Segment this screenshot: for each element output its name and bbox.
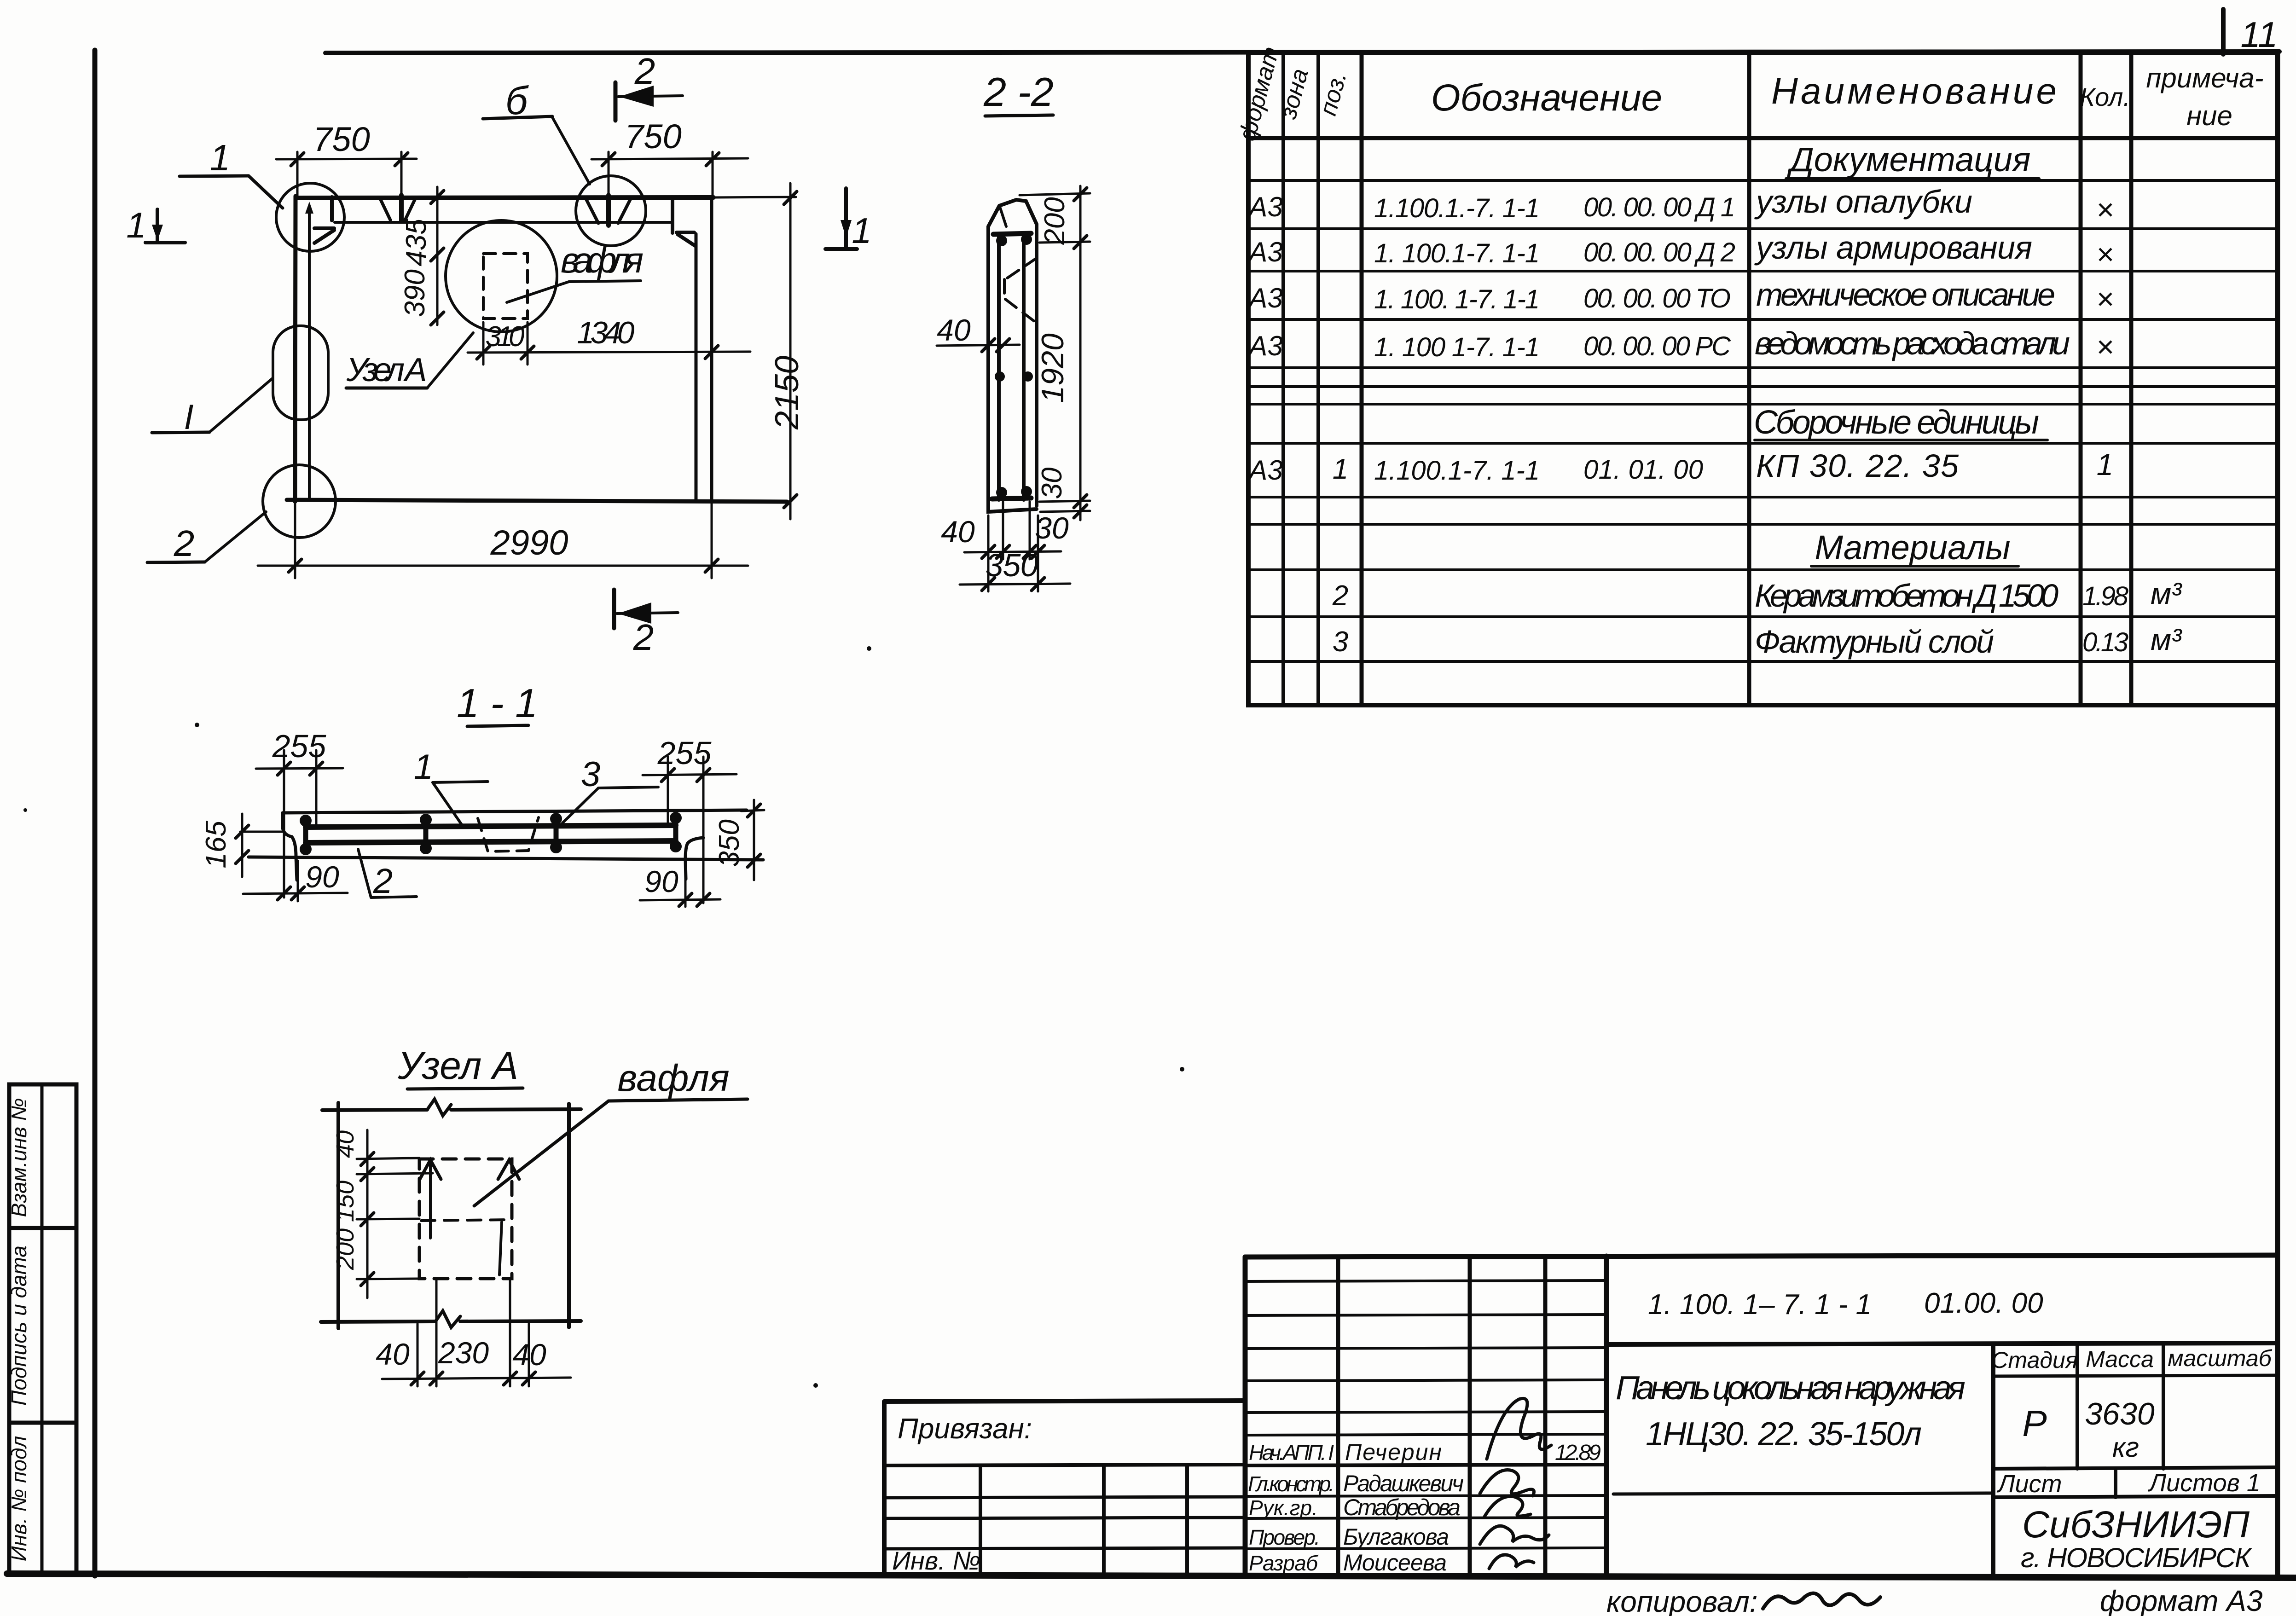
- table row 4 designation: [1374, 331, 1731, 362]
- table row 4 format A3: [1247, 330, 1282, 361]
- svg-text:м³: м³: [2151, 576, 2182, 610]
- svg-text:Керамзитобетон Д 1500: Керамзитобетон Д 1500: [1755, 578, 2058, 614]
- svg-text:Привязан:: Привязан:: [898, 1413, 1032, 1445]
- svg-text:×: ×: [2096, 192, 2114, 226]
- specification table outer frame: [1248, 53, 2278, 705]
- svg-text:40: 40: [331, 1130, 359, 1158]
- bottom annotation kopiroval: [1606, 1585, 1880, 1616]
- title block inv no label: [892, 1546, 980, 1575]
- svg-text:1 - 1: 1 - 1: [457, 680, 538, 726]
- scan speck dots: [23, 646, 1184, 1388]
- bottom annotation format A3: [2100, 1584, 2263, 1616]
- dimension chain 435 390 vertical: [399, 187, 444, 325]
- svg-text:Инв. №: Инв. №: [892, 1546, 980, 1575]
- table header label primechanie: [2146, 63, 2263, 131]
- title block stadiya value P: [2022, 1403, 2047, 1444]
- title block signature squiggle nach apm: [1487, 1398, 1551, 1459]
- title block document number cell: [1648, 1287, 2043, 1321]
- specification table column lines: [1283, 53, 2131, 705]
- uzel A waffle slope line right: [499, 1222, 502, 1275]
- plan view callout 1 label with leader: [180, 137, 283, 208]
- dimension 2150 vertical: [769, 183, 806, 519]
- svg-text:01. 01. 00: 01. 01. 00: [1583, 455, 1703, 485]
- svg-text:2150: 2150: [769, 356, 806, 430]
- title block panel name text: [1616, 1370, 1966, 1453]
- plan view left corner step: [330, 197, 334, 220]
- left stamp box outline: [9, 1084, 76, 1574]
- uzel A title underlined: [397, 1044, 523, 1089]
- svg-text:Инв. № подл: Инв. № подл: [7, 1436, 31, 1562]
- table row 2 qty x: [2096, 237, 2114, 271]
- svg-text:1: 1: [414, 747, 433, 787]
- section 2-2 panel outline: [988, 200, 1037, 512]
- svg-text:ние: ние: [2186, 100, 2232, 131]
- svg-text:Подпись и дата: Подпись и дата: [7, 1245, 31, 1406]
- svg-text:2990: 2990: [490, 523, 568, 562]
- svg-text:30: 30: [1036, 468, 1068, 499]
- plan view right formwork key trapezoid: [586, 195, 631, 226]
- plan view bottom corner circle node 2: [263, 465, 336, 538]
- svg-text:90: 90: [305, 860, 339, 894]
- plan view callout I label with leader: [152, 378, 273, 437]
- plan view waffle recess dashed box: [483, 254, 528, 319]
- plan view right corner step: [671, 198, 674, 233]
- table row KP designation: [1374, 455, 1703, 486]
- title block signature squiggle gl konstr: [1480, 1470, 1534, 1496]
- svg-text:12.89: 12.89: [1555, 1441, 1601, 1465]
- plan view panel top edge: [297, 197, 796, 198]
- svg-text:Р: Р: [2022, 1403, 2047, 1444]
- table row 1 format A3: [1247, 191, 1282, 222]
- section 1-1 dimension 90 right: [640, 864, 720, 907]
- svg-text:зона: зона: [1275, 66, 1314, 122]
- table row 1 designation: [1374, 192, 1735, 223]
- plan view callout circle b: [576, 176, 646, 246]
- table header label Naimenovanie: [1771, 70, 2057, 111]
- title block right sub table verticals: [1993, 1344, 2163, 1576]
- svg-text:Наименование: Наименование: [1771, 70, 2057, 111]
- plan view panel right inner line: [695, 234, 698, 499]
- section 1-1 left end hook profile: [283, 813, 297, 880]
- svg-text:Стадия: Стадия: [1991, 1347, 2077, 1373]
- table header label poz rotated: [1315, 69, 1352, 118]
- svg-text:310: 310: [486, 321, 525, 353]
- svg-text:кг: кг: [2112, 1432, 2139, 1463]
- svg-text:350: 350: [713, 819, 745, 867]
- left stamp label Inv no podl: [7, 1436, 31, 1562]
- section 1-1 dimension 165 left rotated: [200, 814, 283, 877]
- svg-text:Булгакова: Булгакова: [1343, 1524, 1449, 1550]
- svg-text:Кол.: Кол.: [2080, 82, 2130, 111]
- table header label format rotated: [1234, 44, 1284, 144]
- title block signature squiggle prover: [1480, 1526, 1549, 1544]
- section 1-1 callout 1 label with leader: [414, 747, 488, 825]
- plan view corner detail circle node 1: [276, 183, 344, 251]
- left stamp label Vzam inv no: [7, 1098, 31, 1217]
- svg-text:ведомость расхода стали: ведомость расхода стали: [1755, 325, 2070, 361]
- svg-text:40: 40: [937, 313, 971, 347]
- table row fakturny sloy unit m3: [2151, 622, 2182, 656]
- title block name cell divider line: [1606, 1343, 2278, 1344]
- svg-text:СибЗНИИЭП: СибЗНИИЭП: [2022, 1504, 2250, 1546]
- uzel A outer square bottom edge with break: [321, 1311, 581, 1327]
- svg-text:вафля: вафля: [561, 240, 644, 280]
- svg-text:1. 100 1-7. 1-1: 1. 100 1-7. 1-1: [1374, 332, 1540, 362]
- uzel A outer square right edge: [567, 1104, 571, 1327]
- uzel A outer square left edge: [336, 1103, 340, 1328]
- table header label zona rotated: [1275, 66, 1314, 122]
- section 1-1 callout 3 label with leader: [562, 755, 658, 823]
- svg-text:Фактурный слой: Фактурный слой: [1755, 624, 1994, 660]
- svg-text:1340: 1340: [577, 315, 635, 350]
- section 2-2 dimension chain 200 1920 30: [1020, 186, 1090, 520]
- svg-text:Масса: Масса: [2086, 1346, 2154, 1372]
- svg-text:00. 00. 00 Д 2: 00. 00. 00 Д 2: [1583, 237, 1735, 267]
- uzel A left dimension chain 40 150 200: [331, 1130, 433, 1298]
- svg-text:230: 230: [438, 1336, 489, 1370]
- svg-text:Взам.инв №: Взам.инв №: [7, 1098, 31, 1217]
- section mark 1 right: [825, 188, 872, 251]
- table row KP format A3: [1247, 455, 1282, 486]
- svg-text:Провер.: Провер.: [1249, 1525, 1320, 1549]
- sheet frame right border line: [2275, 52, 2280, 1576]
- section 2-2 dimension 350: [960, 547, 1070, 591]
- table header label Kol: [2080, 82, 2130, 111]
- svg-text:узлы армирования: узлы армирования: [1754, 230, 2032, 266]
- sheet frame top border line: [325, 52, 2279, 53]
- svg-text:1: 1: [126, 205, 146, 245]
- table row 4 qty x: [2096, 330, 2114, 364]
- svg-text:1: 1: [1333, 453, 1348, 485]
- table row 3 name tehnicheskoe opisanie: [1756, 277, 2055, 313]
- svg-text:00. 00. 00 РС: 00. 00. 00 РС: [1583, 331, 1731, 361]
- title block top edge: [1245, 1255, 2278, 1257]
- specification table header bottom line: [1248, 136, 2278, 140]
- title block organization SibZNIIEP: [2021, 1504, 2253, 1573]
- svg-text:Стабредова: Стабредова: [1343, 1494, 1461, 1520]
- svg-text:м³: м³: [2151, 622, 2182, 656]
- dimension 750 right: [591, 117, 748, 197]
- title block signature squiggle razrab: [1489, 1555, 1534, 1569]
- dimension 750 left: [276, 120, 417, 196]
- table row 3 qty x: [2096, 282, 2114, 316]
- table row fakturny sloy qty: [2082, 627, 2128, 657]
- uzel A bottom dimension 40 230 40: [376, 1280, 571, 1386]
- table row fakturny sloy name: [1755, 624, 1994, 660]
- svg-text:Нач.АПП. I: Нач.АПП. I: [1249, 1441, 1334, 1465]
- table row keramzitobeton poz 2: [1332, 580, 1348, 612]
- table row Dokumentaciya heading underlined: [1786, 140, 2039, 179]
- title block privyazan box: [884, 1401, 1245, 1574]
- section 1-1 rebar bottom bar: [306, 841, 676, 843]
- svg-text:2: 2: [633, 617, 654, 658]
- svg-text:узлы опалубки: узлы опалубки: [1754, 184, 1972, 220]
- svg-text:90: 90: [644, 864, 678, 898]
- svg-text:1.100.1.-7. 1-1: 1.100.1.-7. 1-1: [1374, 193, 1540, 223]
- section 1-1 rebar top bar: [306, 825, 676, 827]
- svg-text:поз.: поз.: [1315, 69, 1352, 118]
- title block massa value 3630 kg: [2085, 1396, 2154, 1463]
- svg-text:1. 100. 1-7. 1-1: 1. 100. 1-7. 1-1: [1374, 284, 1540, 314]
- table row 4 name vedomost rashoda stali: [1755, 325, 2070, 361]
- table row fakturny sloy poz 3: [1333, 626, 1348, 658]
- plan view right corner flag: [677, 232, 695, 246]
- title block central column row lines: [1245, 1280, 1606, 1549]
- svg-text:40: 40: [376, 1337, 410, 1371]
- plan view panel left inner line with up arrow: [305, 202, 313, 499]
- svg-text:200: 200: [1039, 197, 1071, 245]
- plan view panel bottom edge: [287, 500, 787, 502]
- section 1-1 dimension 350 right rotated: [713, 800, 764, 880]
- dimension 310 and 1340: [468, 315, 750, 365]
- section 2-2 title underlined: [983, 69, 1054, 116]
- specification table row lines: [1248, 180, 2278, 661]
- uzel A waffle corner chamfer left: [419, 1160, 441, 1180]
- section 1-1 rebar stirrups with dots: [300, 812, 682, 855]
- svg-text:435: 435: [400, 219, 432, 266]
- svg-text:Материалы: Материалы: [1815, 528, 2010, 567]
- svg-text:11: 11: [2241, 14, 2278, 55]
- svg-text:А3: А3: [1247, 283, 1282, 313]
- svg-text:2: 2: [174, 523, 195, 564]
- uzel A outer square top edge with break: [322, 1099, 581, 1116]
- title block central column verticals: [1245, 1256, 1606, 1576]
- svg-text:00. 00. 00 Д 1: 00. 00. 00 Д 1: [1583, 192, 1735, 222]
- uzel A waffle dashed rectangle: [419, 1159, 512, 1279]
- plan view vaflya label with leader: [507, 240, 644, 302]
- section 1-1 waffle hidden dashed trapezoid: [478, 817, 539, 851]
- svg-text:А3: А3: [1247, 237, 1282, 267]
- plan view uzel A label with leader: [346, 333, 474, 388]
- plan view callout 2 label with leader: [147, 512, 266, 564]
- svg-text:1. 100. 1– 7. 1 - 1: 1. 100. 1– 7. 1 - 1: [1648, 1289, 1872, 1321]
- table row 3 format A3: [1247, 283, 1282, 313]
- table row keramzitobeton unit m3: [2151, 576, 2182, 610]
- svg-text:Документация: Документация: [1787, 140, 2031, 179]
- section 2-2 waffle hidden dashed lines: [1004, 258, 1037, 321]
- title block stadiya massa masshtab header row: [1991, 1345, 2278, 1376]
- svg-text:165: 165: [200, 821, 232, 869]
- table row 2 designation: [1374, 237, 1735, 268]
- svg-text:2: 2: [1332, 580, 1348, 612]
- plan view left formwork key trapezoid: [380, 195, 415, 221]
- uzel A waffle slope line left: [429, 1162, 432, 1238]
- svg-text:1НЦ30. 22. 35-150л: 1НЦ30. 22. 35-150л: [1646, 1416, 1922, 1453]
- section 1-1 title underlined: [457, 680, 538, 726]
- svg-text:Гл.констр.: Гл.констр.: [1248, 1472, 1334, 1496]
- svg-text:150: 150: [331, 1181, 359, 1222]
- svg-text:750: 750: [625, 117, 681, 156]
- section 2-2 rebar cage: [992, 233, 1033, 500]
- svg-text:1: 1: [2097, 447, 2114, 481]
- sheet frame bottom border line: [7, 1574, 2296, 1578]
- svg-text:Обозначение: Обозначение: [1431, 77, 1662, 119]
- section 1-1 dimension 255 left: [256, 728, 343, 898]
- svg-text:Панель цокольная наружная: Панель цокольная наружная: [1616, 1370, 1966, 1407]
- table row sborochnye edinicy heading underlined: [1754, 404, 2047, 441]
- title block name cell underline: [1613, 1493, 1993, 1494]
- svg-text:А3: А3: [1247, 455, 1282, 486]
- title block signature row names: [1343, 1439, 1464, 1575]
- section 2-2 bottom dimension 40 30: [941, 502, 1069, 591]
- plan view local section stadium node I: [273, 326, 328, 420]
- table row KP qty 1: [2097, 447, 2114, 481]
- title block signature squiggle ruk gr: [1484, 1496, 1531, 1517]
- dimension 2990: [258, 502, 748, 578]
- svg-text:01.00. 00: 01.00. 00: [1924, 1287, 2043, 1319]
- svg-text:КП 30. 22. 35: КП 30. 22. 35: [1756, 448, 1959, 484]
- svg-text:750: 750: [313, 120, 370, 158]
- title block signature row labels: [1248, 1441, 1334, 1575]
- table row 3 designation: [1374, 284, 1731, 314]
- svg-text:примеча-: примеча-: [2146, 63, 2263, 93]
- svg-text:00. 00. 00 ТО: 00. 00. 00 ТО: [1583, 284, 1731, 313]
- sheet frame left border line: [93, 50, 98, 1576]
- svg-text:А3: А3: [1247, 191, 1282, 222]
- plan view callout b label with leader: [483, 79, 590, 184]
- page number 11: [2241, 14, 2278, 55]
- svg-text:Узел А: Узел А: [346, 352, 427, 388]
- table row 2 name uzly armirovaniya: [1754, 230, 2032, 266]
- svg-text:Лист: Лист: [1996, 1470, 2062, 1498]
- plan view panel inner top line: [335, 221, 673, 224]
- section 1-1 slab top edge: [283, 810, 747, 813]
- svg-text:1920: 1920: [1035, 333, 1070, 403]
- section 1-1 callout 2 label with leader: [358, 849, 417, 901]
- svg-text:390: 390: [399, 269, 431, 317]
- svg-text:Сборочные единицы: Сборочные единицы: [1754, 404, 2039, 441]
- svg-text:0.13: 0.13: [2082, 627, 2128, 657]
- svg-text:255: 255: [657, 735, 712, 771]
- section 2-2 dimension 40 left: [937, 313, 1020, 352]
- svg-text:1. 100.1-7. 1-1: 1. 100.1-7. 1-1: [1374, 238, 1540, 268]
- plan view uzel A detail circle: [446, 220, 557, 332]
- page number separator tick: [2221, 9, 2226, 54]
- uzel A vaflya label with leader: [474, 1057, 748, 1206]
- svg-text:×: ×: [2096, 237, 2114, 271]
- uzel A waffle corner chamfer right: [498, 1160, 519, 1179]
- svg-text:2: 2: [634, 51, 655, 92]
- plan view left corner flag: [314, 228, 334, 243]
- svg-text:техническое описание: техническое описание: [1756, 277, 2055, 313]
- section 1-1 right end hook profile: [685, 838, 703, 879]
- svg-text:350: 350: [986, 547, 1038, 583]
- svg-text:Печерин: Печерин: [1345, 1439, 1442, 1465]
- title block privyazan lower grid: [884, 1465, 1245, 1574]
- svg-text:Моисеева: Моисеева: [1343, 1550, 1447, 1575]
- svg-text:формат: формат: [1234, 44, 1284, 144]
- svg-text:1: 1: [852, 210, 871, 251]
- svg-text:Радашкевич: Радашкевич: [1343, 1471, 1464, 1496]
- section mark 2 top: [615, 51, 683, 121]
- svg-text:копировал:: копировал:: [1606, 1585, 1758, 1616]
- table row keramzitobeton name: [1755, 578, 2058, 614]
- title block list row: [1993, 1467, 2278, 1498]
- plan view panel right outer edge: [710, 198, 713, 499]
- svg-text:1: 1: [210, 137, 231, 178]
- svg-text:Листов 1: Листов 1: [2148, 1469, 2261, 1497]
- table row materialy heading underlined: [1811, 528, 2018, 567]
- section 1-1 dimension 90 left: [243, 860, 348, 901]
- svg-text:1.100.1-7. 1-1: 1.100.1-7. 1-1: [1374, 456, 1540, 486]
- table header label Oboznachenie: [1431, 77, 1662, 119]
- svg-text:Разраб: Разраб: [1249, 1551, 1319, 1575]
- svg-text:А3: А3: [1247, 330, 1282, 361]
- svg-text:г. НОВОСИБИРСК: г. НОВОСИБИРСК: [2021, 1542, 2253, 1573]
- svg-text:×: ×: [2096, 330, 2114, 364]
- svg-text:масштаб: масштаб: [2168, 1345, 2272, 1371]
- table row 1 qty x: [2096, 192, 2114, 226]
- svg-text:3: 3: [1333, 626, 1348, 658]
- svg-text:200: 200: [331, 1228, 359, 1270]
- left stamp label Podpis i data: [7, 1245, 31, 1406]
- svg-text:2 -2: 2 -2: [983, 69, 1054, 115]
- svg-text:вафля: вафля: [617, 1057, 729, 1099]
- title block date 1289: [1555, 1441, 1601, 1465]
- section 1-1 dimension 255 right: [643, 735, 736, 903]
- svg-text:40: 40: [512, 1338, 546, 1372]
- table row KP poz 1: [1333, 453, 1348, 485]
- table row keramzitobeton qty: [2082, 581, 2128, 611]
- svg-text:2: 2: [373, 862, 393, 901]
- section mark 2 bottom: [614, 590, 678, 658]
- plan view panel left outer edge: [295, 196, 296, 502]
- svg-text:Рук.гр.: Рук.гр.: [1249, 1496, 1318, 1520]
- section mark 1 left: [126, 205, 185, 245]
- svg-text:255: 255: [272, 728, 327, 764]
- svg-text:1.98: 1.98: [2082, 581, 2128, 611]
- svg-text:30: 30: [1035, 511, 1069, 545]
- svg-text:3630: 3630: [2085, 1396, 2154, 1431]
- svg-text:формат А3: формат А3: [2100, 1584, 2263, 1616]
- svg-text:40: 40: [941, 515, 975, 549]
- section 1-1 slab bottom edge: [249, 857, 763, 860]
- svg-text:×: ×: [2096, 282, 2114, 316]
- table row 1 name uzly opalubki: [1754, 184, 1972, 220]
- table row 2 format A3: [1247, 237, 1282, 267]
- table row KP name: [1756, 448, 1959, 484]
- svg-text:Узел А: Узел А: [397, 1044, 518, 1087]
